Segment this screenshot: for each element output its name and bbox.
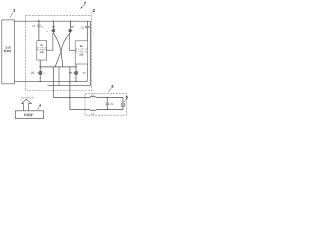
svg-text:電源部: 電源部 — [4, 49, 12, 53]
svg-text:G1-G4/T1,T2: G1-G4/T1,T2 — [21, 97, 35, 100]
svg-text:交流: 交流 — [5, 45, 11, 49]
svg-text:回路: 回路 — [79, 53, 83, 56]
svg-text:コントロール: コントロール — [75, 51, 87, 54]
svg-text:Q4: Q4 — [69, 71, 73, 74]
svg-text:Q3: Q3 — [31, 71, 35, 74]
svg-text:5: 5 — [126, 96, 128, 100]
svg-text:1: 1 — [13, 9, 15, 13]
svg-text:制御部: 制御部 — [24, 113, 33, 117]
svg-text:7: 7 — [84, 2, 86, 6]
svg-text:スイッチング: スイッチング — [75, 48, 87, 51]
svg-text:回路: 回路 — [40, 51, 44, 54]
svg-text:1a: 1a — [46, 30, 48, 33]
svg-text:2: 2 — [93, 8, 95, 12]
svg-text:3: 3 — [111, 85, 113, 89]
